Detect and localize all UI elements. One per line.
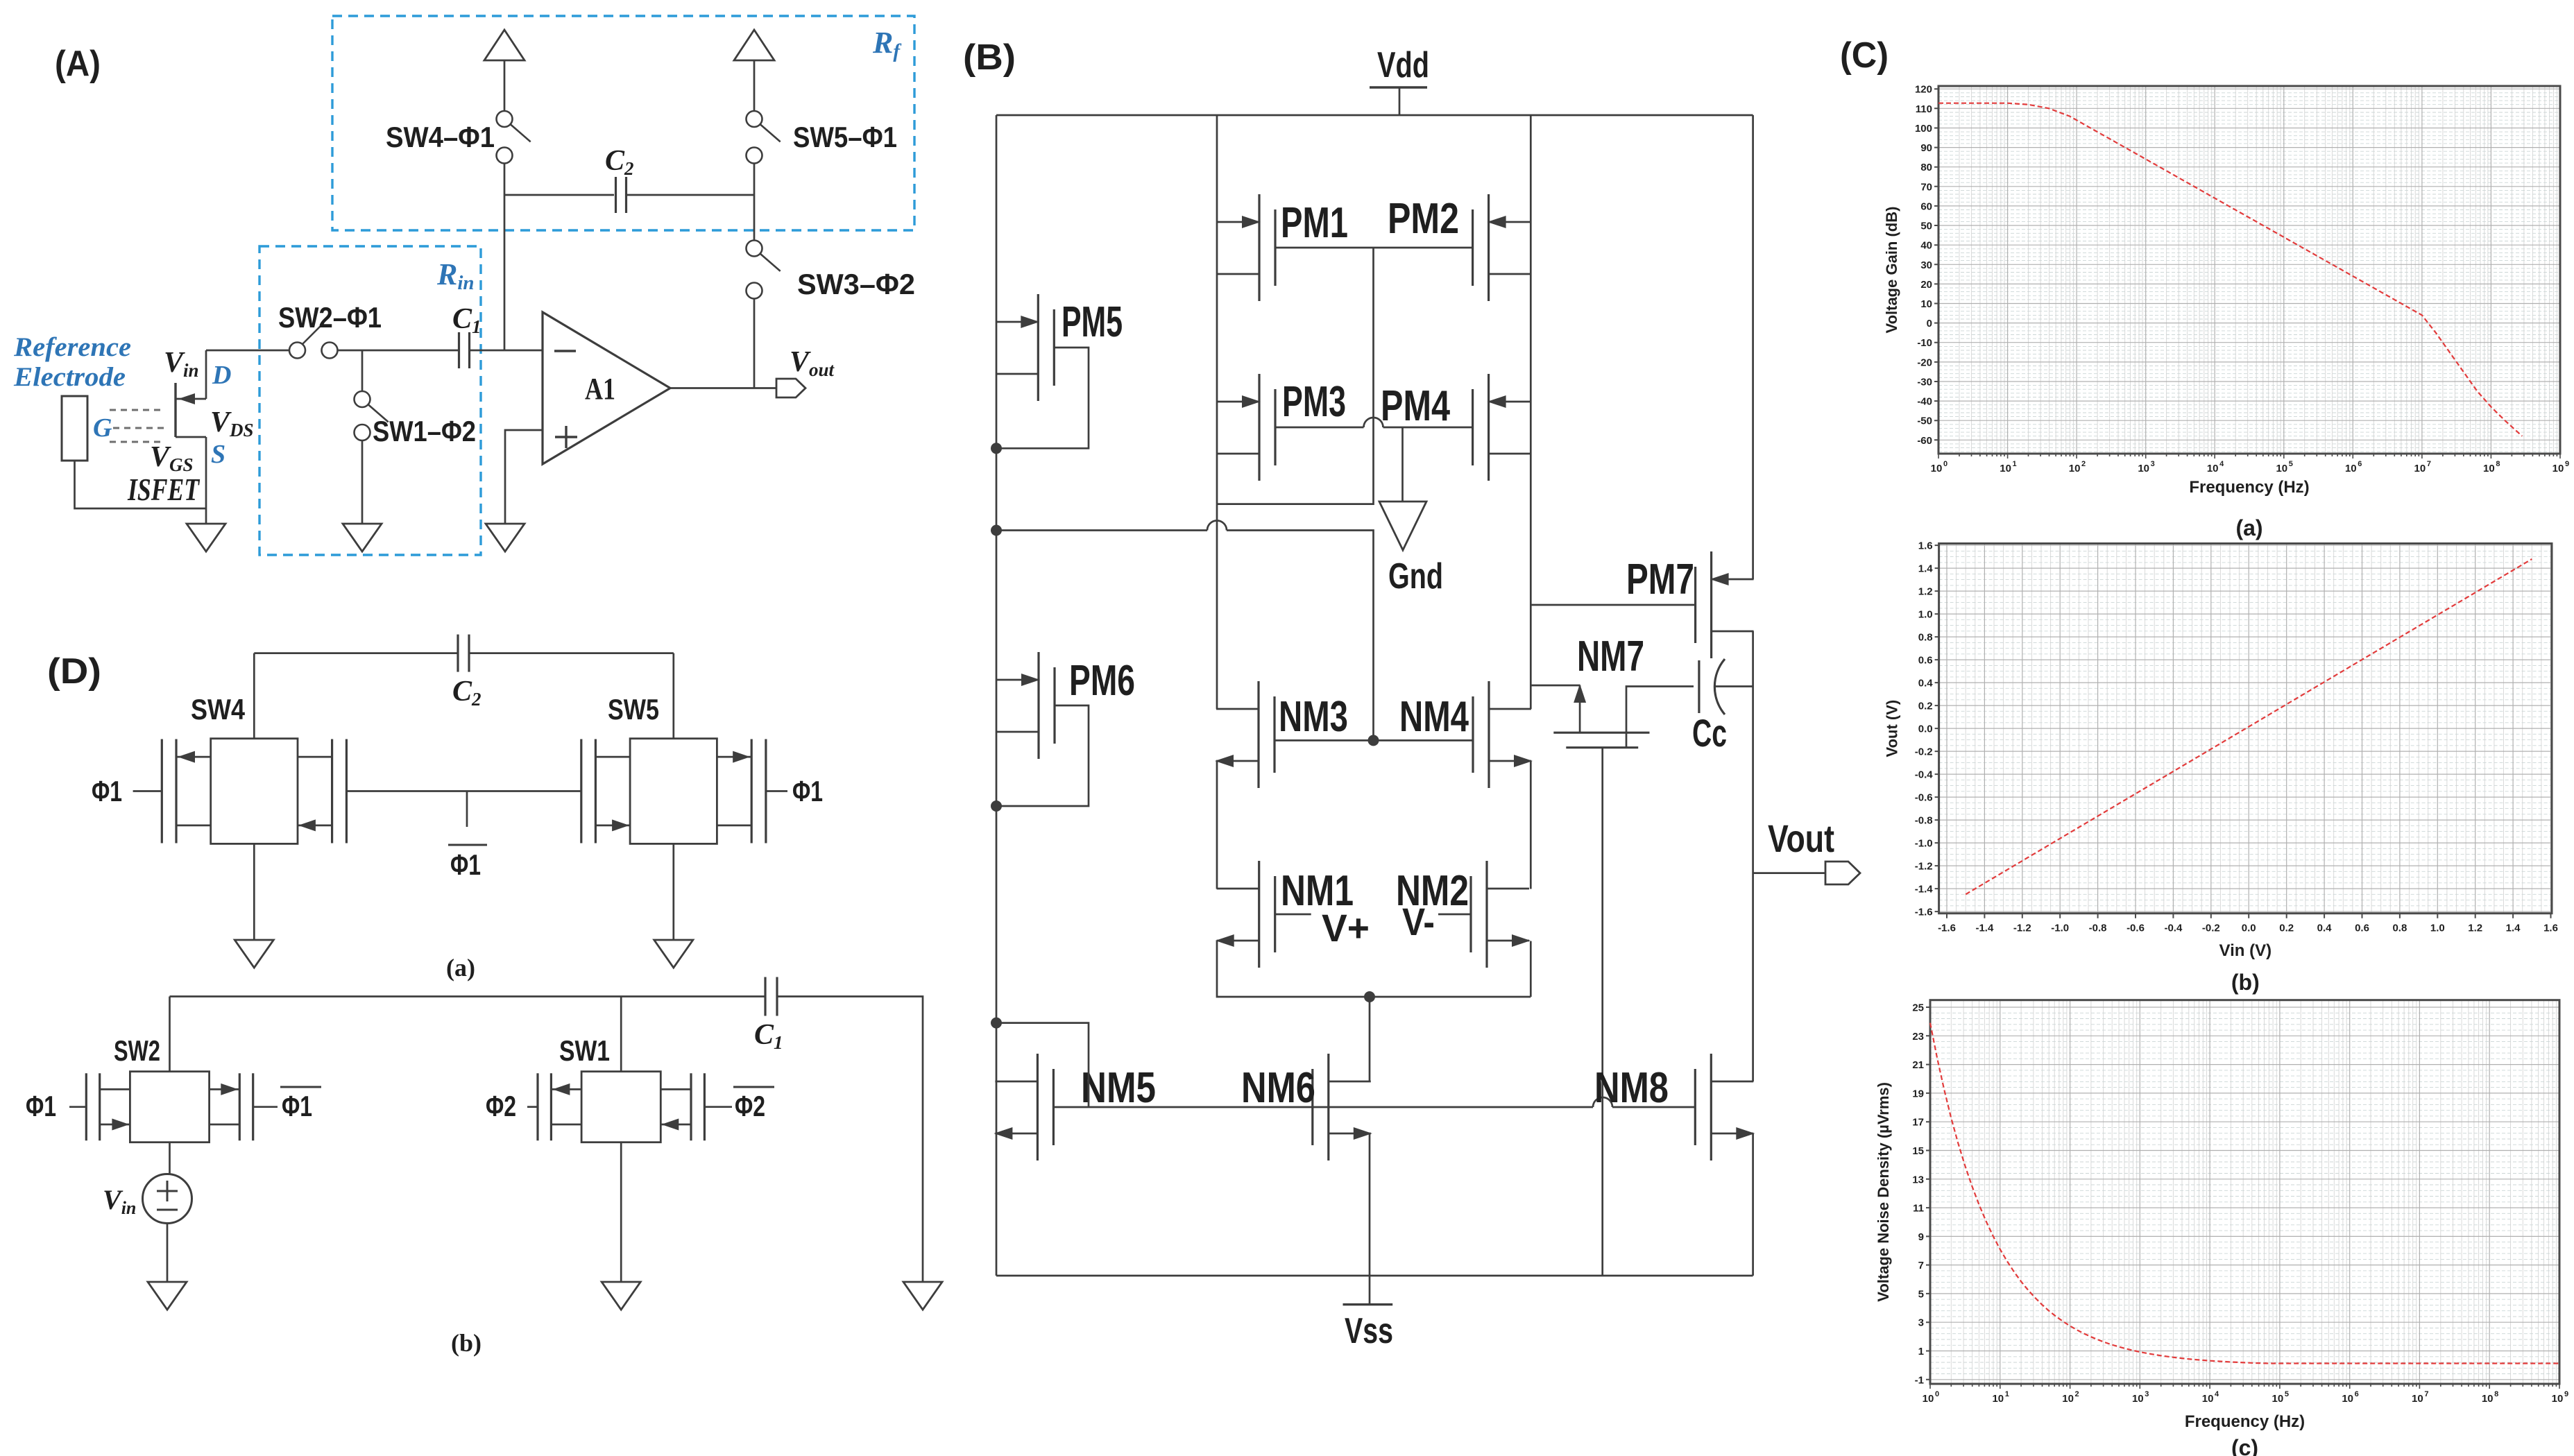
wire SW5 to SW3 [753, 164, 756, 241]
svg-text:SW2–Φ1: SW2–Φ1 [278, 301, 382, 334]
wire SW1 to ground [361, 440, 364, 524]
wire right rail lower [1752, 1133, 1754, 1276]
svg-text:5: 5 [2289, 460, 2293, 468]
svg-text:1: 1 [2005, 1390, 2009, 1398]
output terminal pentagon (panel B) [1825, 862, 1860, 884]
svg-text:-1.6: -1.6 [1915, 907, 1933, 918]
svg-text:-0.8: -0.8 [1915, 815, 1933, 827]
svg-text:SW4: SW4 [191, 693, 246, 726]
supply arrow above SW4 [484, 30, 525, 60]
wire SW2 to C1 [338, 350, 460, 352]
node dot bias line [991, 525, 1002, 536]
junction dot NM3/NM4 gate [1368, 735, 1379, 746]
svg-text:10: 10 [1923, 1393, 1934, 1405]
svg-text:-20: -20 [1917, 357, 1932, 368]
ground under opamp + input [486, 524, 525, 551]
wire Vout stub [1753, 872, 1825, 874]
svg-text:10: 10 [2276, 463, 2287, 474]
plot c axes box [1930, 1000, 2559, 1384]
wire NM1/NM2 common source [1217, 941, 1531, 997]
svg-text:1.6: 1.6 [1918, 540, 1933, 552]
svg-text:8: 8 [2496, 460, 2500, 468]
svg-text:(A): (A) [55, 44, 101, 84]
wire SW4 bottom to ground [253, 843, 255, 940]
svg-text:-0.2: -0.2 [2202, 923, 2220, 934]
svg-text:SW4–Φ1: SW4–Φ1 [386, 121, 495, 153]
svg-text:PM1: PM1 [1281, 199, 1348, 247]
svg-text:10: 10 [2342, 1393, 2353, 1405]
svg-text:80: 80 [1920, 162, 1932, 173]
ground under SW5 (panel D) [654, 940, 693, 968]
transistor NM1 [1258, 861, 1260, 968]
wire opamp output to Vout [670, 387, 776, 389]
svg-text:15: 15 [1912, 1145, 1924, 1157]
SW2 arrows (panel D) [221, 1084, 238, 1095]
wire C1 to opamp inverting input [470, 350, 543, 352]
top wire of panel D b [170, 995, 766, 997]
dashed region box Rf [332, 16, 914, 230]
transistor NM4 [1488, 681, 1490, 788]
plot b axes box [1939, 544, 2552, 914]
svg-text:6: 6 [2358, 460, 2362, 468]
svg-text:SW2: SW2 [114, 1034, 160, 1067]
svg-text:Gnd: Gnd [1388, 556, 1443, 597]
svg-text:PM5: PM5 [1062, 298, 1123, 346]
transistor NM8 [1710, 1054, 1712, 1160]
gate lead Phi2 bar (SW1) [704, 1106, 732, 1108]
wire PM6 gate diode bracket [996, 705, 1089, 806]
svg-text:1.4: 1.4 [1918, 563, 1934, 575]
plot a minor grid [1959, 86, 2557, 454]
svg-text:SW3–Φ2: SW3–Φ2 [797, 268, 915, 300]
capacitor C2 (panel D) [457, 635, 459, 672]
output terminal pentagon (panel A) [776, 379, 806, 397]
transistor NM6 [1327, 1054, 1329, 1160]
svg-text:9: 9 [1918, 1231, 1924, 1243]
svg-text:0.2: 0.2 [2279, 923, 2294, 934]
svg-text:0.0: 0.0 [2242, 923, 2256, 934]
svg-text:(a): (a) [2235, 515, 2262, 540]
svg-text:SW1–Φ2: SW1–Φ2 [373, 415, 476, 447]
svg-text:(D): (D) [47, 651, 101, 692]
svg-text:PM7: PM7 [1626, 556, 1694, 603]
svg-text:50: 50 [1920, 221, 1932, 232]
svg-text:-0.8: -0.8 [2089, 923, 2107, 934]
svg-text:0.6: 0.6 [1918, 655, 1933, 667]
svg-text:A1: A1 [585, 372, 615, 406]
svg-text:10: 10 [1931, 463, 1943, 474]
svg-text:10: 10 [2552, 1393, 2564, 1405]
svg-text:1.4: 1.4 [2506, 923, 2521, 934]
transmission gate SW2 (panel D) [130, 1072, 209, 1142]
svg-text:Vout: Vout [1768, 816, 1834, 860]
svg-text:10: 10 [2062, 1393, 2074, 1405]
switch SW2 (horizontal) [289, 343, 305, 359]
wire left rail [996, 115, 998, 1276]
svg-text:0.4: 0.4 [1918, 678, 1934, 690]
input stub V+ [1275, 914, 1311, 916]
svg-text:2: 2 [2075, 1390, 2079, 1398]
plot a red curve [1938, 103, 2522, 436]
svg-text:Vout (V): Vout (V) [1884, 700, 1901, 757]
wire PM1 gate to PM2 gate [1275, 247, 1473, 249]
svg-text:Frequency (Hz): Frequency (Hz) [2185, 1412, 2305, 1431]
svg-text:0.4: 0.4 [2317, 923, 2333, 934]
svg-text:10: 10 [2207, 463, 2219, 474]
svg-text:4: 4 [2215, 1390, 2219, 1398]
svg-text:0.2: 0.2 [1918, 701, 1933, 712]
ISFET transistor [174, 383, 176, 437]
svg-text:Reference: Reference [13, 332, 131, 362]
svg-text:Φ2: Φ2 [486, 1090, 516, 1122]
voltage source Vin (panel D) [143, 1174, 192, 1224]
svg-text:13: 13 [1912, 1174, 1924, 1185]
wire Cc right [1714, 685, 1753, 687]
wire PM3/PM4 gate to Gnd [1401, 427, 1404, 502]
svg-text:6: 6 [2355, 1390, 2359, 1398]
ground symbol Gnd [1379, 502, 1426, 550]
Vdd supply symbol [1370, 86, 1427, 88]
wire bias line to NM3/NM4 gates with hop [996, 529, 1207, 531]
svg-text:-0.6: -0.6 [2126, 923, 2145, 934]
wire right inner column upper [1530, 115, 1532, 709]
wire electrode to ISFET source [75, 461, 207, 508]
plot b major grid [1939, 544, 2552, 914]
wire SW4 to C2 node and feedback to inverting input [504, 164, 506, 351]
svg-text:3: 3 [2145, 1390, 2149, 1398]
svg-text:9: 9 [2564, 1390, 2568, 1398]
svg-text:10: 10 [2345, 463, 2357, 474]
wire Vin node to SW2 [206, 350, 289, 352]
wire PM5 gate diode bracket [996, 348, 1089, 448]
svg-text:SW5–Φ1: SW5–Φ1 [793, 121, 897, 153]
svg-text:10: 10 [2132, 1393, 2144, 1405]
svg-text:10: 10 [2412, 1393, 2423, 1405]
svg-text:3: 3 [2151, 460, 2155, 468]
capacitor C1 (panel A) [458, 332, 460, 368]
capacitor Cc [1698, 660, 1700, 713]
svg-text:0: 0 [1935, 1390, 1939, 1398]
transmission gate SW1 (panel D) [581, 1072, 660, 1142]
svg-text:5: 5 [1918, 1288, 1924, 1300]
svg-text:1.6: 1.6 [2543, 923, 2558, 934]
svg-text:-0.2: -0.2 [1915, 746, 1933, 758]
wire SW5 bottom to ground [672, 843, 674, 940]
wire C2 top right (panel D) [469, 652, 674, 654]
switch SW4 [497, 111, 513, 127]
svg-text:PM4: PM4 [1381, 382, 1450, 430]
wire left inner column cascode [1216, 761, 1218, 889]
ground under SW4 (panel D) [235, 940, 273, 968]
SW4 arrows [178, 751, 195, 763]
transistor NM7 [1553, 732, 1649, 734]
svg-text:10: 10 [1920, 298, 1932, 310]
svg-text:3: 3 [1918, 1317, 1924, 1329]
wire right rail upper [1752, 115, 1754, 579]
SW5 arrows [733, 751, 750, 763]
svg-text:Vin (V): Vin (V) [2219, 941, 2272, 960]
switch SW3 [747, 241, 762, 257]
transistor NM2 [1485, 861, 1488, 968]
SW1 arrows (panel D) [552, 1084, 570, 1095]
svg-text:-0.4: -0.4 [2164, 923, 2183, 934]
svg-text:70: 70 [1920, 181, 1932, 193]
svg-text:NM6: NM6 [1241, 1064, 1315, 1112]
svg-text:G: G [93, 413, 112, 443]
svg-text:10: 10 [1992, 1393, 2004, 1405]
plot c minor grid [1951, 1000, 2556, 1384]
svg-text:-0.4: -0.4 [1915, 769, 1934, 781]
wire SW3 to output node [753, 299, 756, 388]
svg-text:Φ1: Φ1 [92, 775, 122, 807]
svg-text:V-: V- [1402, 900, 1435, 943]
plot b minor grid [1957, 544, 2541, 914]
wire left inner column upper [1216, 115, 1218, 709]
transistor PM5 [1037, 294, 1039, 401]
svg-text:NM5: NM5 [1081, 1064, 1156, 1112]
svg-text:60: 60 [1920, 200, 1932, 212]
ground under Vin source [148, 1282, 187, 1310]
wire SW2 top to top rail (panel D b) [169, 997, 171, 1072]
transistor PM1 [1258, 194, 1260, 301]
wire NM7 drain to right column [1531, 685, 1580, 687]
svg-text:100: 100 [1915, 123, 1932, 135]
svg-text:10: 10 [2482, 1393, 2494, 1405]
svg-text:1.0: 1.0 [2430, 923, 2445, 934]
wire middle vertical upper [1217, 248, 1374, 504]
svg-text:Φ1: Φ1 [26, 1090, 56, 1122]
svg-text:7: 7 [2427, 460, 2431, 468]
svg-text:110: 110 [1916, 103, 1932, 115]
wire SW1 branch [361, 350, 364, 391]
wire opamp + input to ground [505, 430, 543, 524]
wire bottom rail [996, 1275, 1753, 1277]
svg-text:5: 5 [2285, 1390, 2289, 1398]
dashed region box Rin [259, 246, 481, 555]
svg-text:Φ1: Φ1 [282, 1090, 312, 1122]
svg-text:0.8: 0.8 [2392, 923, 2407, 934]
wire C2 left [504, 194, 614, 196]
svg-text:10: 10 [2272, 1393, 2284, 1405]
wire PM7 gate line [1531, 604, 1695, 606]
svg-text:(B): (B) [963, 37, 1016, 78]
gate lead Phi2 (SW1) [527, 1106, 538, 1108]
capacitor C2 (panel A) [615, 177, 617, 213]
wire tail node to NM6 [1369, 997, 1371, 1081]
svg-text:(b): (b) [2231, 970, 2260, 995]
svg-text:(C): (C) [1840, 35, 1889, 76]
wire SW1 top to top rail (panel D b) [620, 997, 622, 1072]
junction dot tail node [1364, 991, 1375, 1002]
svg-text:40: 40 [1920, 240, 1932, 252]
svg-text:NM7: NM7 [1577, 633, 1644, 680]
transistor PM4 [1488, 374, 1490, 481]
transistor PM2 [1488, 194, 1490, 301]
svg-text:-1.6: -1.6 [1938, 923, 1956, 934]
svg-text:NM4: NM4 [1399, 693, 1469, 741]
transistor PM3 [1258, 374, 1260, 481]
svg-text:10: 10 [2552, 463, 2564, 474]
svg-text:D: D [212, 361, 231, 390]
svg-text:Vss: Vss [1345, 1311, 1393, 1351]
svg-text:4: 4 [2219, 460, 2224, 468]
svg-text:10: 10 [2000, 463, 2011, 474]
reference electrode body [62, 396, 87, 461]
ground right (panel D) [903, 1282, 942, 1310]
svg-text:11: 11 [1913, 1203, 1924, 1215]
svg-text:0.8: 0.8 [1918, 632, 1933, 644]
supply arrow above SW5 [734, 30, 774, 60]
wire right rail mid [1752, 631, 1754, 1081]
svg-text:PM2: PM2 [1388, 195, 1459, 243]
wire C2 right [627, 194, 755, 196]
svg-text:PM3: PM3 [1282, 378, 1346, 426]
gate lead Phi1 right (SW5) [766, 790, 787, 792]
wire SW4 top to C2 [253, 653, 255, 739]
svg-text:Electrode: Electrode [13, 362, 126, 392]
Vss supply symbol [1369, 1276, 1371, 1305]
wire PM3 gate to PM4 gate with hop [1275, 427, 1364, 429]
svg-text:Φ2: Φ2 [735, 1090, 765, 1122]
svg-text:NM3: NM3 [1279, 693, 1348, 741]
svg-text:25: 25 [1912, 1002, 1924, 1014]
capacitor C1 (panel D) [764, 977, 766, 1016]
wire NM6 source to Vss tap [1369, 1133, 1371, 1276]
svg-text:-0.6: -0.6 [1915, 792, 1933, 804]
transistor NM5 [1037, 1054, 1039, 1160]
svg-text:20: 20 [1920, 279, 1932, 291]
plot a major grid [1938, 86, 2560, 454]
plot c major grid [1930, 1000, 2559, 1384]
wire NM5 diode jog [996, 1023, 1089, 1107]
gate coupling dashed lines [110, 409, 164, 411]
svg-text:9: 9 [2565, 460, 2569, 468]
gate lead Phi1 bar (SW2) [253, 1106, 278, 1108]
wire C2 top left (panel D) [254, 652, 458, 654]
svg-text:Φ1: Φ1 [792, 775, 823, 807]
svg-text:8: 8 [2494, 1390, 2498, 1398]
input stub V- [1438, 914, 1471, 916]
wire SW5 top to C2 [672, 653, 674, 739]
gate lead Phi1 left (SW4) [133, 790, 162, 792]
plot a axes box [1938, 86, 2560, 454]
wire gate line NM5-NM6-NM8 with hop [1053, 1106, 1593, 1108]
svg-text:1.0: 1.0 [1918, 609, 1933, 621]
wire right inner column cascode [1530, 761, 1532, 889]
svg-text:21: 21 [1912, 1059, 1924, 1071]
svg-text:1.2: 1.2 [2468, 923, 2482, 934]
wire SW2 bottom to Vin source [169, 1142, 171, 1174]
svg-text:10: 10 [2069, 463, 2081, 474]
transistor PM7 [1710, 551, 1712, 658]
svg-text:10: 10 [2483, 463, 2495, 474]
svg-text:1: 1 [1918, 1346, 1924, 1357]
wire Vin source to ground [167, 1224, 169, 1283]
svg-text:Voltage Gain (dB): Voltage Gain (dB) [1883, 207, 1900, 334]
svg-text:10: 10 [2138, 463, 2149, 474]
svg-text:(a): (a) [446, 954, 475, 982]
svg-text:7: 7 [2424, 1390, 2428, 1398]
junction dot NM5 drain [991, 1018, 1002, 1029]
svg-text:-10: -10 [1917, 337, 1932, 349]
svg-text:Cc: Cc [1692, 711, 1727, 755]
svg-text:Vdd: Vdd [1377, 45, 1429, 85]
gate lead Phi1 (SW2) [69, 1106, 86, 1108]
transmission gate SW5 (panel D) [630, 739, 717, 844]
svg-text:(b): (b) [451, 1329, 481, 1357]
wire SW1 bottom to ground [620, 1142, 622, 1282]
svg-text:120: 120 [1915, 84, 1932, 96]
svg-text:10: 10 [2202, 1393, 2214, 1405]
plot b red line [1966, 559, 2532, 894]
svg-text:7: 7 [1918, 1260, 1924, 1271]
svg-text:-1.2: -1.2 [1915, 861, 1933, 873]
svg-text:Frequency (Hz): Frequency (Hz) [2189, 478, 2309, 497]
switch SW1 [355, 391, 370, 407]
svg-text:(c): (c) [2231, 1435, 2258, 1456]
switch SW5 [747, 111, 762, 127]
svg-text:0.0: 0.0 [1918, 723, 1933, 735]
plot c red curve [1930, 1023, 2559, 1364]
svg-text:-1.4: -1.4 [1975, 923, 1994, 934]
svg-text:SW1: SW1 [559, 1034, 610, 1067]
svg-text:1: 1 [2013, 460, 2017, 468]
svg-text:2: 2 [2081, 460, 2086, 468]
wire C1 to right ground (panel D) [777, 997, 923, 1283]
svg-text:NM8: NM8 [1594, 1064, 1669, 1112]
wire NM7 gate to Cc node [1626, 687, 1694, 748]
svg-text:30: 30 [1920, 259, 1932, 271]
svg-text:1.2: 1.2 [1918, 586, 1933, 598]
svg-text:90: 90 [1920, 142, 1932, 154]
middle wire SW4-SW5 with Phi1bar tap [346, 790, 581, 792]
ground under SW1 (panel D) [602, 1282, 640, 1310]
svg-text:19: 19 [1912, 1088, 1924, 1099]
svg-text:S: S [211, 440, 225, 469]
svg-text:PM6: PM6 [1069, 657, 1135, 705]
junction dot PM5 bracket [991, 443, 1002, 454]
svg-text:-40: -40 [1917, 396, 1932, 408]
wire NM7 source down [1601, 748, 1603, 1276]
junction dot PM6 bracket [991, 800, 1002, 812]
svg-text:-60: -60 [1917, 435, 1932, 447]
svg-text:SW5: SW5 [608, 693, 659, 726]
transistor PM6 [1037, 652, 1039, 759]
transistor NM3 [1257, 681, 1259, 788]
transmission gate SW4 (panel D) [211, 739, 298, 844]
svg-text:ISFET: ISFET [127, 472, 200, 507]
wire NM3 gate to NM4 gate [1275, 739, 1473, 742]
svg-text:0: 0 [1943, 460, 1947, 468]
svg-text:Voltage Noise Density (µVrms): Voltage Noise Density (µVrms) [1875, 1082, 1892, 1302]
ISFET drain arrow [178, 393, 195, 404]
svg-text:0.6: 0.6 [2355, 923, 2369, 934]
svg-text:17: 17 [1912, 1117, 1924, 1129]
wire Vdd top rail [996, 114, 1753, 117]
svg-text:-1.4: -1.4 [1915, 884, 1934, 896]
svg-text:-1: -1 [1915, 1374, 1924, 1386]
svg-text:10: 10 [2414, 463, 2426, 474]
op-amp A1 [543, 312, 670, 464]
svg-text:-1.2: -1.2 [2013, 923, 2031, 934]
ground under ISFET [187, 524, 225, 551]
svg-text:-50: -50 [1917, 416, 1932, 427]
svg-text:-1.0: -1.0 [2051, 923, 2069, 934]
svg-text:-30: -30 [1917, 377, 1932, 388]
svg-text:V+: V+ [1322, 906, 1370, 950]
ground under SW1 [343, 524, 382, 551]
svg-text:-1.0: -1.0 [1915, 838, 1933, 850]
